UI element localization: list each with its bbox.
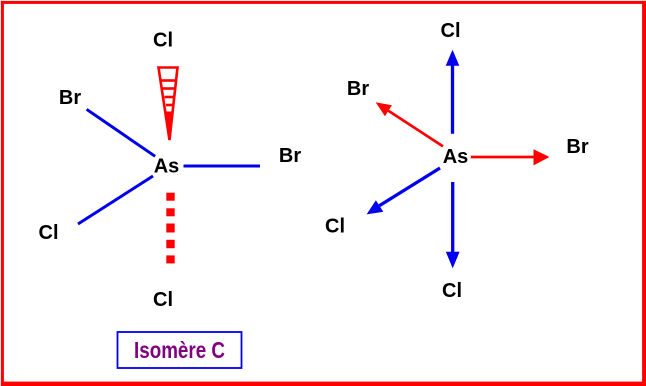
svg-text:Cl: Cl: [441, 20, 461, 42]
svg-text:Isomère C: Isomère C: [134, 337, 225, 363]
svg-text:Cl: Cl: [39, 222, 59, 244]
svg-text:Br: Br: [566, 136, 588, 158]
svg-text:Cl: Cl: [153, 30, 173, 52]
svg-text:Br: Br: [279, 145, 301, 167]
svg-text:Cl: Cl: [153, 289, 173, 311]
svg-text:As: As: [154, 156, 180, 178]
svg-text:As: As: [443, 146, 469, 168]
svg-text:Br: Br: [59, 87, 81, 109]
svg-text:Cl: Cl: [325, 216, 345, 238]
svg-text:Cl: Cl: [442, 280, 462, 302]
svg-text:Br: Br: [347, 78, 369, 100]
